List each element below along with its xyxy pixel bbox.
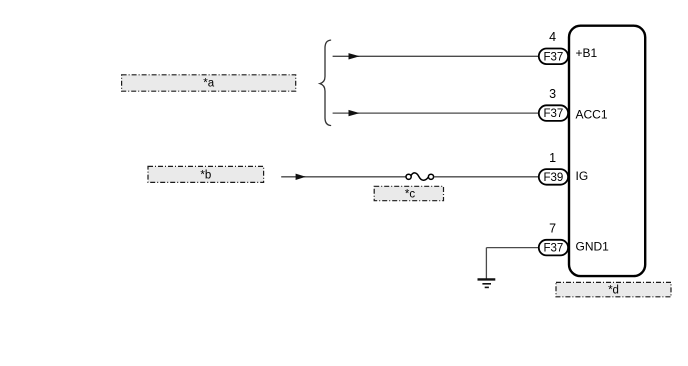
pin 4 connector F37 <box>539 49 568 65</box>
svg-text:GND1: GND1 <box>576 239 610 253</box>
pin 7 connector F37 <box>539 240 568 256</box>
svg-text:*a: *a <box>203 77 214 89</box>
wire pin4 (+B1) <box>333 55 539 57</box>
svg-text:4: 4 <box>549 30 556 44</box>
arrow on +B1 wire <box>349 53 360 59</box>
svg-text:F37: F37 <box>543 108 563 120</box>
pin 3 connector F37 <box>539 105 568 121</box>
svg-text:*c: *c <box>405 188 415 200</box>
svg-text:IG: IG <box>576 169 589 183</box>
arrow on IG wire <box>296 174 306 180</box>
arrow on ACC1 wire <box>349 110 360 116</box>
wire GND1 vertical drop <box>485 248 487 279</box>
svg-text:*b: *b <box>200 170 211 182</box>
wire GND1 horizontal <box>486 247 538 249</box>
svg-text:F37: F37 <box>543 243 563 255</box>
label box *c <box>374 186 443 200</box>
svg-text:3: 3 <box>549 87 556 101</box>
svg-text:F39: F39 <box>543 172 563 184</box>
label box *b <box>148 166 264 182</box>
ECU component box U1 <box>569 26 645 276</box>
fuse F (circle-wave-circle) <box>406 173 434 180</box>
wire pin3 (ACC1) <box>333 112 539 114</box>
svg-text:*d: *d <box>608 285 619 297</box>
ground symbol <box>478 279 496 287</box>
brace grouping +B1/ACC1 wires <box>320 40 331 125</box>
svg-text:F37: F37 <box>543 51 563 63</box>
svg-text:+B1: +B1 <box>576 46 598 60</box>
wire IG left segment <box>281 176 406 178</box>
svg-text:ACC1: ACC1 <box>576 108 608 122</box>
pin 1 connector F39 <box>539 169 568 185</box>
svg-text:7: 7 <box>549 221 556 235</box>
label box *d <box>556 282 671 296</box>
wire IG right segment <box>434 176 539 178</box>
svg-text:1: 1 <box>549 151 556 165</box>
label box *a <box>122 75 296 91</box>
